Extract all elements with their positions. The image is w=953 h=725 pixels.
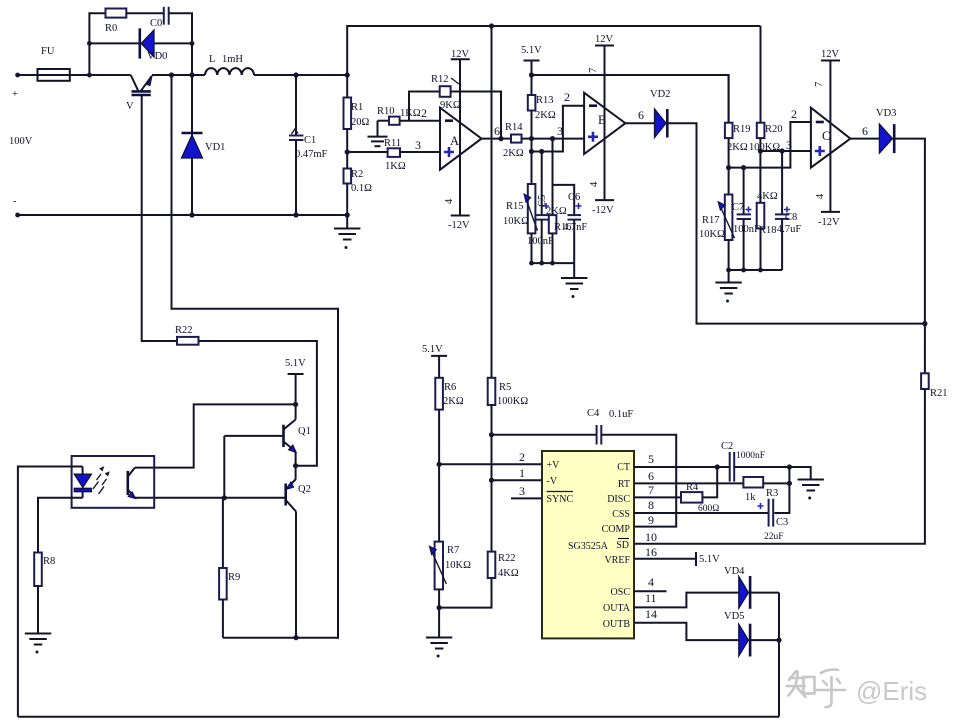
- wire VREF pin16: [634, 558, 696, 560]
- svg-text:1k: 1k: [745, 492, 756, 503]
- node: [498, 136, 503, 141]
- wire to opamp B pin3: [522, 138, 585, 140]
- resistor R19: [725, 123, 751, 153]
- svg-text:Q2: Q2: [298, 484, 311, 495]
- svg-text:R1: R1: [351, 102, 363, 113]
- wire rail to R1: [254, 74, 347, 76]
- wire Q-base line: [223, 436, 225, 498]
- svg-text:0.47mF: 0.47mF: [295, 149, 328, 160]
- capacitor C0: [150, 7, 169, 29]
- svg-text:CT: CT: [617, 462, 630, 473]
- node: [741, 165, 746, 170]
- svg-text:7: 7: [814, 82, 825, 87]
- wire VD0 branch: [89, 42, 192, 44]
- svg-text:2KΩ: 2KΩ: [727, 142, 748, 153]
- svg-text:2: 2: [564, 90, 570, 104]
- wire diode common down to rail: [778, 593, 780, 717]
- svg-text:4: 4: [589, 181, 600, 187]
- wire pin3 line C: [759, 138, 761, 203]
- node: [922, 321, 927, 326]
- optocoupler box: [72, 456, 155, 508]
- svg-text:R7: R7: [447, 545, 459, 556]
- svg-text:10KΩ: 10KΩ: [503, 216, 529, 227]
- node: [787, 464, 792, 469]
- node: [726, 268, 731, 273]
- resistor R2: [344, 169, 373, 195]
- svg-text:RT: RT: [618, 479, 630, 490]
- wire: [728, 240, 730, 270]
- wire: [346, 184, 348, 216]
- node: [715, 464, 720, 469]
- svg-text:R21: R21: [930, 388, 948, 399]
- svg-text:6: 6: [648, 469, 654, 483]
- wire SYNC stub: [511, 497, 542, 499]
- inductor L 1mH: [205, 54, 254, 75]
- wire snubber left leg: [89, 13, 105, 75]
- svg-text:5.1V: 5.1V: [285, 358, 306, 369]
- svg-text:16: 16: [645, 545, 657, 559]
- svg-text:C2: C2: [721, 441, 733, 452]
- potentiometer R7: [430, 542, 471, 590]
- svg-text:R13: R13: [536, 95, 554, 106]
- resistor R3: [743, 477, 778, 503]
- ground below R2: [334, 215, 360, 249]
- op-amp C: [811, 108, 851, 168]
- node: [87, 41, 92, 46]
- node: [222, 495, 227, 500]
- svg-text:OUTB: OUTB: [603, 619, 631, 630]
- diode VD0: [140, 28, 168, 62]
- wire bottom rail: [18, 214, 348, 216]
- wire R20 top lead: [760, 26, 762, 123]
- svg-text:11: 11: [645, 591, 657, 605]
- opto photon arrows: [93, 466, 110, 494]
- diode VD1: [182, 75, 226, 215]
- svg-text:DISC: DISC: [607, 494, 630, 505]
- wire VD2 out: [667, 123, 925, 323]
- svg-text:COMP: COMP: [602, 524, 631, 535]
- wire top horizontal rail: [347, 26, 760, 75]
- diode VD3: [876, 108, 896, 153]
- capacitor C7: [732, 168, 760, 270]
- svg-text:1000nF: 1000nF: [736, 451, 765, 461]
- power 5.1V sg: [422, 344, 447, 378]
- node: [293, 212, 298, 217]
- transistor V (IGBT): [126, 75, 152, 112]
- node: [489, 23, 494, 28]
- svg-text:6: 6: [638, 108, 644, 122]
- svg-text:R14: R14: [505, 122, 523, 133]
- svg-text:SYNC: SYNC: [547, 494, 574, 505]
- power 5.1V driver: [285, 358, 306, 420]
- node: [529, 136, 534, 141]
- watermark 知乎 @Eris: [787, 670, 846, 707]
- svg-text:SG3525A: SG3525A: [568, 541, 609, 552]
- svg-text:1KΩ: 1KΩ: [400, 108, 421, 119]
- wire opto collector line: [135, 404, 296, 467]
- transistor Q1: [224, 420, 311, 453]
- resistor R22: [175, 325, 199, 345]
- svg-text:R17: R17: [702, 215, 720, 226]
- wire bottom bus C network: [729, 269, 783, 271]
- wire R7 bottom: [438, 589, 440, 637]
- node: [787, 481, 792, 486]
- opto LED: [74, 467, 91, 498]
- svg-text:R6: R6: [444, 382, 456, 393]
- wire R9 bottom: [222, 600, 224, 638]
- svg-text:+: +: [12, 89, 18, 100]
- node: [741, 268, 746, 273]
- diode VD4: [724, 566, 750, 609]
- power 5.1V rail: [521, 45, 729, 123]
- wire feedback: [409, 92, 440, 121]
- node: [529, 149, 534, 154]
- node: [758, 148, 763, 153]
- wire C2 right to ground: [734, 467, 811, 479]
- svg-text:2KΩ: 2KΩ: [535, 110, 556, 121]
- svg-text:R2: R2: [351, 169, 363, 180]
- node: [550, 136, 555, 141]
- resistor R1: [344, 98, 370, 130]
- node: [489, 478, 494, 483]
- wire VD3 out to R21: [894, 139, 925, 374]
- svg-text:10KΩ: 10KΩ: [445, 560, 471, 571]
- wire gate drive from V: [142, 95, 177, 341]
- svg-text:R22: R22: [498, 553, 516, 564]
- wire Q2 collector down: [295, 512, 297, 638]
- node: [726, 165, 731, 170]
- node: [293, 72, 298, 77]
- capacitor C3: [758, 499, 789, 542]
- opto phototransistor: [128, 468, 136, 499]
- svg-text:R12: R12: [431, 74, 449, 85]
- svg-text:4: 4: [648, 575, 654, 589]
- wire: [553, 185, 575, 215]
- svg-text:@Eris: @Eris: [856, 676, 927, 706]
- diode VD2: [650, 89, 670, 138]
- svg-text:-12V: -12V: [818, 217, 840, 228]
- ground below R7: [426, 638, 452, 658]
- node: [780, 148, 785, 153]
- capacitor C6: [563, 192, 587, 263]
- wire OUTB pin14: [634, 623, 739, 640]
- svg-text:SD: SD: [616, 540, 629, 551]
- svg-text:1KΩ: 1KΩ: [385, 161, 406, 172]
- wire mini bus: [532, 106, 585, 152]
- svg-text:3: 3: [557, 124, 563, 138]
- wire R5 down: [491, 405, 493, 552]
- wire: [552, 233, 554, 263]
- svg-text:L: L: [209, 54, 215, 65]
- resistor R9: [219, 568, 240, 600]
- diode VD5: [724, 611, 750, 657]
- node: [189, 72, 194, 77]
- svg-text:C3: C3: [776, 517, 788, 528]
- svg-text:2KΩ: 2KΩ: [546, 206, 567, 217]
- ground below C network: [715, 270, 741, 303]
- svg-text:12V: 12V: [451, 49, 470, 60]
- wire R15 lead: [531, 152, 533, 185]
- potentiometer R17: [699, 195, 735, 241]
- wire pin2: [400, 120, 440, 122]
- svg-text:OSC: OSC: [611, 587, 631, 598]
- resistor R18: [757, 191, 778, 236]
- wire output A: [482, 138, 512, 140]
- wire pin3: [347, 151, 387, 153]
- node: [550, 261, 555, 266]
- svg-text:OUTA: OUTA: [603, 603, 631, 614]
- wire R3 right: [763, 482, 789, 484]
- svg-text:1: 1: [519, 466, 525, 480]
- resistor R6: [435, 378, 464, 410]
- wire bottom bus B network: [532, 262, 575, 264]
- wire R4 right up to CT: [702, 467, 717, 497]
- capacitor C1 0.47mF: [289, 75, 328, 215]
- svg-text:100KΩ: 100KΩ: [497, 396, 528, 407]
- svg-text:10: 10: [645, 530, 657, 544]
- wire DISC pin7: [634, 496, 681, 498]
- resistor R12: [431, 74, 461, 111]
- svg-text:R11: R11: [384, 138, 401, 149]
- svg-text:4KΩ: 4KΩ: [498, 568, 519, 579]
- wire output B: [625, 122, 654, 124]
- svg-text:7: 7: [648, 483, 654, 497]
- wire rail after V: [152, 74, 205, 76]
- opamp A supply +12V: [444, 49, 470, 231]
- svg-text:0.1uF: 0.1uF: [609, 409, 633, 420]
- opamp B supply +12V: [588, 34, 614, 216]
- resistor R11: [384, 138, 406, 172]
- svg-text:1mH: 1mH: [222, 54, 243, 65]
- node: [539, 261, 544, 266]
- wire node line C: [729, 122, 811, 168]
- svg-text:100V: 100V: [9, 136, 33, 147]
- svg-text:-12V: -12V: [448, 220, 470, 231]
- svg-text:FU: FU: [41, 46, 55, 57]
- node: [776, 638, 781, 643]
- wire pin3 to opamp: [400, 151, 440, 153]
- svg-text:R3: R3: [766, 488, 778, 499]
- svg-text:R10: R10: [377, 106, 395, 117]
- wire C4 line right to COMP: [601, 435, 676, 527]
- svg-text:C6: C6: [568, 192, 580, 203]
- capacitor C4: [587, 408, 633, 445]
- svg-text:6: 6: [494, 124, 500, 138]
- node + input terminal: [9, 73, 33, 218]
- svg-text:VD4: VD4: [724, 566, 745, 577]
- svg-text:R19: R19: [733, 124, 751, 135]
- power 5.1V vref: [696, 552, 720, 566]
- svg-text:22uF: 22uF: [764, 532, 784, 542]
- svg-text:3: 3: [415, 138, 421, 152]
- resistor R5: [488, 378, 529, 407]
- svg-text:VREF: VREF: [604, 555, 630, 566]
- wire top rail left: [18, 74, 131, 76]
- wire R21 down to SD: [634, 389, 925, 544]
- svg-text:2: 2: [519, 450, 525, 464]
- potentiometer R15: [503, 184, 538, 233]
- svg-text:C8: C8: [785, 212, 797, 223]
- svg-text:R4: R4: [686, 482, 699, 493]
- wire C2R3 node vertical: [774, 467, 789, 513]
- fuse FU: [35, 46, 72, 81]
- wire: [126, 12, 163, 14]
- svg-text:5.1V: 5.1V: [699, 554, 720, 565]
- opamp C supply +12V: [814, 49, 840, 228]
- svg-text:VD5: VD5: [724, 611, 744, 622]
- wire OSC stub: [634, 590, 667, 592]
- wire feedback right: [451, 92, 501, 139]
- svg-text:R18: R18: [759, 225, 777, 236]
- svg-text:VD1: VD1: [205, 142, 225, 153]
- capacitor C2: [721, 441, 765, 482]
- wire CSS pin8: [634, 512, 768, 514]
- node: [345, 212, 350, 217]
- wire: [531, 233, 533, 263]
- node: [293, 463, 298, 468]
- wire R22b bottom: [439, 578, 491, 608]
- svg-text:4: 4: [815, 193, 826, 199]
- node: [293, 402, 298, 407]
- svg-text:4KΩ: 4KΩ: [757, 191, 778, 202]
- wire -V pin1 line: [492, 479, 543, 481]
- svg-text:6: 6: [862, 124, 868, 138]
- svg-text:5: 5: [648, 452, 654, 466]
- svg-text:5.1V: 5.1V: [422, 344, 443, 355]
- wire big bottom rail: [18, 716, 779, 718]
- resistor R22b: [488, 552, 519, 579]
- ground below B network: [561, 263, 587, 298]
- wire R9 lead: [222, 498, 224, 568]
- resistor R10: [377, 106, 421, 125]
- svg-text:7: 7: [588, 68, 599, 73]
- node: [437, 605, 442, 610]
- wire long vertical to R5: [491, 26, 493, 378]
- svg-text:8: 8: [648, 498, 654, 512]
- wire OUTA pin11: [634, 593, 739, 608]
- node: [437, 462, 442, 467]
- svg-text:R9: R9: [228, 572, 240, 583]
- wire R6 to +V: [438, 410, 440, 542]
- svg-text:4.7nF: 4.7nF: [563, 222, 587, 233]
- capacitor C8: [775, 151, 801, 270]
- ground right of C2: [798, 480, 824, 500]
- svg-text:2KΩ: 2KΩ: [443, 396, 464, 407]
- wire Q1 emitter to Q2: [295, 452, 297, 480]
- svg-text:2KΩ: 2KΩ: [503, 148, 524, 159]
- transistor Q2: [286, 479, 311, 512]
- node: [539, 149, 544, 154]
- svg-text:-12V: -12V: [592, 205, 614, 216]
- wire LED cathode to R8: [38, 498, 83, 553]
- node: [293, 635, 298, 640]
- svg-text:VD0: VD0: [147, 51, 167, 62]
- svg-text:14: 14: [645, 607, 657, 621]
- svg-text:2: 2: [791, 107, 797, 121]
- ground below R8: [25, 634, 51, 654]
- wire R13 down to pin3 line: [531, 111, 533, 152]
- resistor R13: [528, 95, 556, 121]
- svg-text:R22: R22: [175, 325, 193, 336]
- wire opto LED anode: [18, 467, 83, 717]
- svg-text:20Ω: 20Ω: [351, 117, 370, 128]
- svg-text:CSS: CSS: [612, 509, 630, 520]
- resistor R8: [34, 553, 55, 587]
- svg-text:3: 3: [519, 484, 525, 498]
- svg-text:Q1: Q1: [298, 426, 311, 437]
- node: [489, 432, 494, 437]
- svg-text:0.1Ω: 0.1Ω: [351, 183, 372, 194]
- svg-text:4.7uF: 4.7uF: [777, 224, 801, 235]
- node: [529, 261, 534, 266]
- wire R16-C6 box top: [552, 139, 554, 216]
- wire: [760, 150, 811, 152]
- svg-text:R15: R15: [506, 201, 524, 212]
- ground under R10: [368, 121, 388, 147]
- svg-text:100nF: 100nF: [527, 236, 554, 247]
- svg-text:4: 4: [444, 198, 455, 204]
- wire output C: [850, 138, 879, 140]
- svg-text:5.1V: 5.1V: [521, 45, 542, 56]
- wire R8 bottom: [37, 586, 39, 633]
- svg-text:C1: C1: [304, 135, 316, 146]
- svg-text:V: V: [126, 101, 134, 112]
- svg-text:C0: C0: [150, 18, 162, 29]
- svg-text:10KΩ: 10KΩ: [699, 229, 725, 240]
- op-amp A: [440, 108, 482, 170]
- op-amp B: [584, 93, 625, 154]
- svg-text:+V: +V: [547, 460, 561, 471]
- svg-text:R5: R5: [499, 382, 511, 393]
- wire top feed riser: [346, 75, 348, 98]
- svg-text:R8: R8: [43, 556, 55, 567]
- resistor R4: [681, 482, 719, 514]
- svg-text:9: 9: [648, 513, 654, 527]
- node: [345, 149, 350, 154]
- svg-text:A: A: [450, 134, 459, 148]
- resistor R14: [503, 122, 524, 159]
- node: [345, 72, 350, 77]
- wire R13 branch: [531, 75, 533, 95]
- svg-text:VD2: VD2: [650, 89, 670, 100]
- wire opto emitter line: [135, 497, 286, 499]
- svg-text:C4: C4: [587, 408, 600, 419]
- node: [758, 268, 763, 273]
- resistor R0: [105, 9, 126, 35]
- node: [189, 212, 194, 217]
- svg-text:R20: R20: [765, 124, 783, 135]
- wire snubber right leg: [169, 13, 192, 75]
- node: [87, 73, 92, 78]
- svg-text:3: 3: [786, 138, 792, 152]
- svg-text:VD3: VD3: [876, 108, 896, 119]
- wire: [760, 228, 762, 270]
- wire R19 to node line: [728, 138, 730, 194]
- svg-text:C: C: [822, 129, 830, 143]
- resistor R21: [921, 373, 947, 399]
- IC U1 SG3525A: [542, 451, 634, 638]
- wire R19 top lead: [728, 75, 730, 123]
- svg-text:2: 2: [421, 106, 427, 120]
- svg-text:12V: 12V: [821, 49, 840, 60]
- wire CT pin5: [634, 466, 729, 468]
- wire R22 to driver node: [199, 341, 317, 466]
- wire VD5 out: [750, 639, 779, 641]
- node: [190, 41, 195, 46]
- svg-text:C7: C7: [732, 202, 744, 213]
- capacitor C5: [527, 152, 554, 264]
- wire RT pin6: [634, 482, 743, 484]
